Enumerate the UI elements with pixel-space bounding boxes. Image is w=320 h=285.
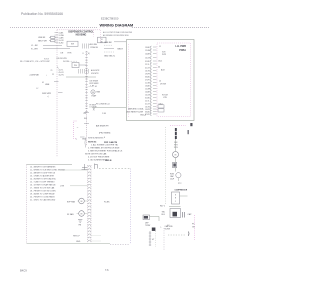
svg-text:P6 CONN BK-14: P6 CONN BK-14 xyxy=(96,104,109,106)
svg-text:41: 41 xyxy=(42,82,44,84)
svg-text:NOTE: DR HTR ON CAB: NOTE: DR HTR ON CAB xyxy=(85,152,107,155)
svg-text:(FRZ SNSR): (FRZ SNSR) xyxy=(99,132,111,134)
svg-text:-+: -+ xyxy=(77,127,79,129)
svg-text:4: 4 xyxy=(104,137,105,139)
aux relay boxes xyxy=(158,105,164,108)
svg-text:J1: J1 xyxy=(159,46,161,48)
svg-text:19 - BU/BK TO COMP RELAY: 19 - BU/BK TO COMP RELAY xyxy=(30,193,55,196)
svg-text:DISPENSER CONTROL: DISPENSER CONTROL xyxy=(68,32,94,34)
svg-text:33-BU: 33-BU xyxy=(145,76,151,78)
svg-text:RLY 1: RLY 1 xyxy=(160,206,165,208)
svg-text:FRZ CAB TB: FRZ CAB TB xyxy=(104,141,118,144)
svg-text:41: 41 xyxy=(95,86,97,88)
svg-text:10 - BK/WH TO DR HARNESS: 10 - BK/WH TO DR HARNESS xyxy=(30,166,56,169)
svg-text:14 - RD/WH TO WTR VALVE A: 14 - RD/WH TO WTR VALVE A xyxy=(30,178,56,181)
svg-text:J4: J4 xyxy=(159,81,161,83)
defrost drain line xyxy=(149,231,151,246)
svg-text:GND: GND xyxy=(82,139,87,141)
svg-text:NOTE ID:: NOTE ID: xyxy=(88,142,97,144)
svg-text:SW: SW xyxy=(71,44,74,46)
svg-text:18 - PR/WH TO DR SW CONN: 18 - PR/WH TO DR SW CONN xyxy=(30,191,56,193)
svg-text:31-RD: 31-RD xyxy=(145,61,151,63)
wire down right chain xyxy=(175,139,177,152)
svg-text:W.VLV: W.VLV xyxy=(44,58,50,60)
svg-text:31-RD: 31-RD xyxy=(145,97,151,99)
svg-text:AUG MTR: AUG MTR xyxy=(91,69,100,72)
svg-text:2-DISP-BK: 2-DISP-BK xyxy=(30,74,40,76)
wire into strip 1 xyxy=(58,169,88,171)
svg-text:EVAP: EVAP xyxy=(92,94,97,97)
main board box left dashed edge xyxy=(26,165,28,244)
condenser fan motor circle xyxy=(173,152,179,158)
svg-text:LINE: LINE xyxy=(45,84,50,86)
svg-text:DISP HTR: DISP HTR xyxy=(42,93,52,95)
compressor relay box xyxy=(172,192,180,204)
svg-text:44: 44 xyxy=(158,67,160,69)
main board box right dashed edge xyxy=(130,169,132,244)
svg-text:41-GY: 41-GY xyxy=(145,67,151,69)
svg-text:2. THE PANEL MT ON FRZ DR SIDE: 2. THE PANEL MT ON FRZ DR SIDE xyxy=(88,146,120,149)
main harness connector strip xyxy=(86,51,88,146)
svg-text:P2-BK: P2-BK xyxy=(104,201,110,203)
svg-text:41-GY: 41-GY xyxy=(145,103,151,105)
svg-text:22-YL: 22-YL xyxy=(145,100,150,102)
svg-text:12-WH: 12-WH xyxy=(145,50,151,52)
door switch symbols on top edge xyxy=(82,164,88,170)
svg-text:L.E. PWR: L.E. PWR xyxy=(175,45,186,48)
svg-text:CRSH BU: CRSH BU xyxy=(90,47,99,49)
svg-text:10-OR: 10-OR xyxy=(145,94,151,96)
svg-text:GND B: GND B xyxy=(105,160,112,162)
dashed board border segment xyxy=(100,30,102,44)
compressor motor box xyxy=(170,209,181,218)
left edge companion dashed line xyxy=(127,44,129,118)
svg-text:+: + xyxy=(46,74,47,76)
svg-text:12 - BR/WH TO DISP HTR CB: 12 - BR/WH TO DISP HTR CB xyxy=(30,173,56,175)
dispenser section dashed border left xyxy=(56,30,58,157)
LE power board inner dashed outline xyxy=(157,43,191,117)
main board box bottom edge xyxy=(27,243,111,245)
svg-text:LINE BK: LINE BK xyxy=(38,37,46,39)
svg-text:16-TN: 16-TN xyxy=(59,75,65,77)
LE power board outline xyxy=(127,40,195,121)
svg-text:AS VIEWED FROM WIRE SIDE: AS VIEWED FROM WIRE SIDE xyxy=(103,34,129,37)
svg-text:GND-A: GND-A xyxy=(140,113,147,116)
right dashed rail lower xyxy=(194,215,196,240)
svg-text:FF FAN: FF FAN xyxy=(67,213,74,216)
svg-text:22: 22 xyxy=(52,74,54,76)
svg-text:15 - YL/BK TO DEF THERMO: 15 - YL/BK TO DEF THERMO xyxy=(30,182,55,184)
capacitor symbol xyxy=(182,212,184,218)
svg-text:GND: GND xyxy=(76,241,81,243)
strip ticks xyxy=(84,112,89,114)
svg-text:19-PR: 19-PR xyxy=(145,73,151,75)
svg-text:22-YL: 22-YL xyxy=(145,64,150,66)
svg-text:16 - GY/WH TO EVAP FAN CB: 16 - GY/WH TO EVAP FAN CB xyxy=(30,184,56,187)
svg-text:HTR: HTR xyxy=(68,52,73,54)
svg-text:HOUSING: HOUSING xyxy=(76,35,87,37)
svg-text:AIR SNSR P9: AIR SNSR P9 xyxy=(96,125,109,128)
dashes below power board xyxy=(170,125,186,127)
svg-text:B4C9: B4C9 xyxy=(20,268,27,272)
svg-text:WIRE A HARNESS: WIRE A HARNESS xyxy=(88,136,104,139)
motor ground symbol xyxy=(78,220,82,223)
svg-text:ALL LE PWR PCBA CONN SHOWN: ALL LE PWR PCBA CONN SHOWN xyxy=(103,31,133,34)
svg-text:HTR LP: HTR LP xyxy=(73,235,80,237)
header dotted cut line xyxy=(10,27,97,29)
svg-text:DR SW: DR SW xyxy=(160,84,166,86)
main board box top edge xyxy=(27,164,73,166)
svg-text:⊥: ⊥ xyxy=(76,138,78,141)
defrost wire xyxy=(150,216,160,218)
start relay circle xyxy=(176,173,181,178)
connector plug P1 xyxy=(51,36,56,42)
svg-text:12-WH: 12-WH xyxy=(145,88,151,90)
interface module box xyxy=(98,37,107,43)
door gasket dashed bracket xyxy=(74,121,77,139)
svg-text:Y-16: Y-16 xyxy=(102,113,106,115)
svg-text:NEUT WH: NEUT WH xyxy=(38,41,47,43)
pin pair symbols xyxy=(82,44,84,49)
svg-text:20 - PK/WH TO COND FAN B: 20 - PK/WH TO COND FAN B xyxy=(30,196,55,199)
svg-text:AUX HARN P13-WH: AUX HARN P13-WH xyxy=(127,110,144,113)
heater dark bar xyxy=(175,128,177,131)
svg-text:14-BR: 14-BR xyxy=(145,53,151,55)
wire to main board xyxy=(92,107,126,109)
svg-text:E23BC78ISS0: E23BC78ISS0 xyxy=(101,17,119,21)
svg-text:17 - TN/BK TO LITE SW CAB: 17 - TN/BK TO LITE SW CAB xyxy=(30,187,55,190)
svg-text:16-TN: 16-TN xyxy=(145,70,150,72)
svg-text:WIRING DIAGRAM: WIRING DIAGRAM xyxy=(100,24,134,28)
svg-text:14-BR: 14-BR xyxy=(145,91,151,93)
defrost dark blob xyxy=(152,228,156,231)
svg-text:PCBA: PCBA xyxy=(179,49,186,52)
svg-text:SW: SW xyxy=(84,118,87,120)
svg-text:ICE MTR: ICE MTR xyxy=(91,73,99,75)
auger motor symbol xyxy=(91,90,95,94)
power board connector pins xyxy=(150,46,151,49)
evap rail dashed xyxy=(163,228,165,250)
right section dashed rail xyxy=(165,127,167,205)
svg-text:MAIN BRD COM-A: MAIN BRD COM-A xyxy=(128,108,144,111)
defrost thermostat box xyxy=(143,215,150,220)
connector J2 pins xyxy=(78,69,80,74)
svg-text:ROOM: ROOM xyxy=(162,94,168,96)
svg-text:13 - OR/BK TO AUGER MTR: 13 - OR/BK TO AUGER MTR xyxy=(30,175,55,178)
svg-text:11-GN: 11-GN xyxy=(145,82,151,84)
svg-text:Publication No. 5995545166: Publication No. 5995545166 xyxy=(21,12,63,16)
svg-text:EVP FAN: EVP FAN xyxy=(67,201,76,204)
svg-text:⊥: ⊥ xyxy=(160,226,162,229)
svg-text:COMPRESSOR: COMPRESSOR xyxy=(175,190,188,192)
svg-text:3. SEE TECH SHEET FOR DETAILS: 3. SEE TECH SHEET FOR DETAILS CK xyxy=(88,149,123,152)
svg-text:HT: HT xyxy=(152,239,154,241)
svg-text:WTR: WTR xyxy=(162,54,167,56)
wire stubs with labels on left border xyxy=(55,32,59,34)
svg-text:AUG WH: AUG WH xyxy=(90,43,98,46)
short dark bar xyxy=(188,130,189,134)
svg-text:GND GN-YL: GND GN-YL xyxy=(104,55,116,57)
water valve box xyxy=(72,63,79,68)
svg-text:4. DO NOT PINCH WIRE: 4. DO NOT PINCH WIRE xyxy=(88,156,110,158)
svg-text:FILL TUBE HTR , ICE + WTR DISP: FILL TUBE HTR , ICE + WTR DISP xyxy=(20,61,51,63)
svg-text:TSTAT: TSTAT xyxy=(145,224,151,227)
dispenser section dashed border top xyxy=(57,29,100,31)
svg-text:21: 21 xyxy=(51,70,53,72)
svg-text:SCRW: SCRW xyxy=(165,228,171,230)
svg-text:21 - GN/YL TO CAB GROUND: 21 - GN/YL TO CAB GROUND xyxy=(30,199,56,202)
svg-text:ICE ROUTE: ICE ROUTE xyxy=(57,58,68,60)
svg-text:CB-2: CB-2 xyxy=(158,61,162,63)
main board box dotted top right xyxy=(99,168,131,170)
svg-text:N - WH: N - WH xyxy=(31,48,38,50)
svg-text:LINE BK: LINE BK xyxy=(104,42,112,44)
lower connector strip xyxy=(87,165,89,243)
svg-text:31-RD: 31-RD xyxy=(59,42,65,44)
overload component xyxy=(173,162,177,167)
svg-text:10-OR: 10-OR xyxy=(145,57,151,59)
bottom dashed wire xyxy=(168,234,185,236)
svg-text:‖: ‖ xyxy=(83,53,84,55)
harness wire bus xyxy=(66,76,96,78)
dispenser switch box xyxy=(67,41,78,46)
svg-text:L1 - BK: L1 - BK xyxy=(31,45,38,47)
svg-text:NEUT: NEUT xyxy=(118,49,124,51)
